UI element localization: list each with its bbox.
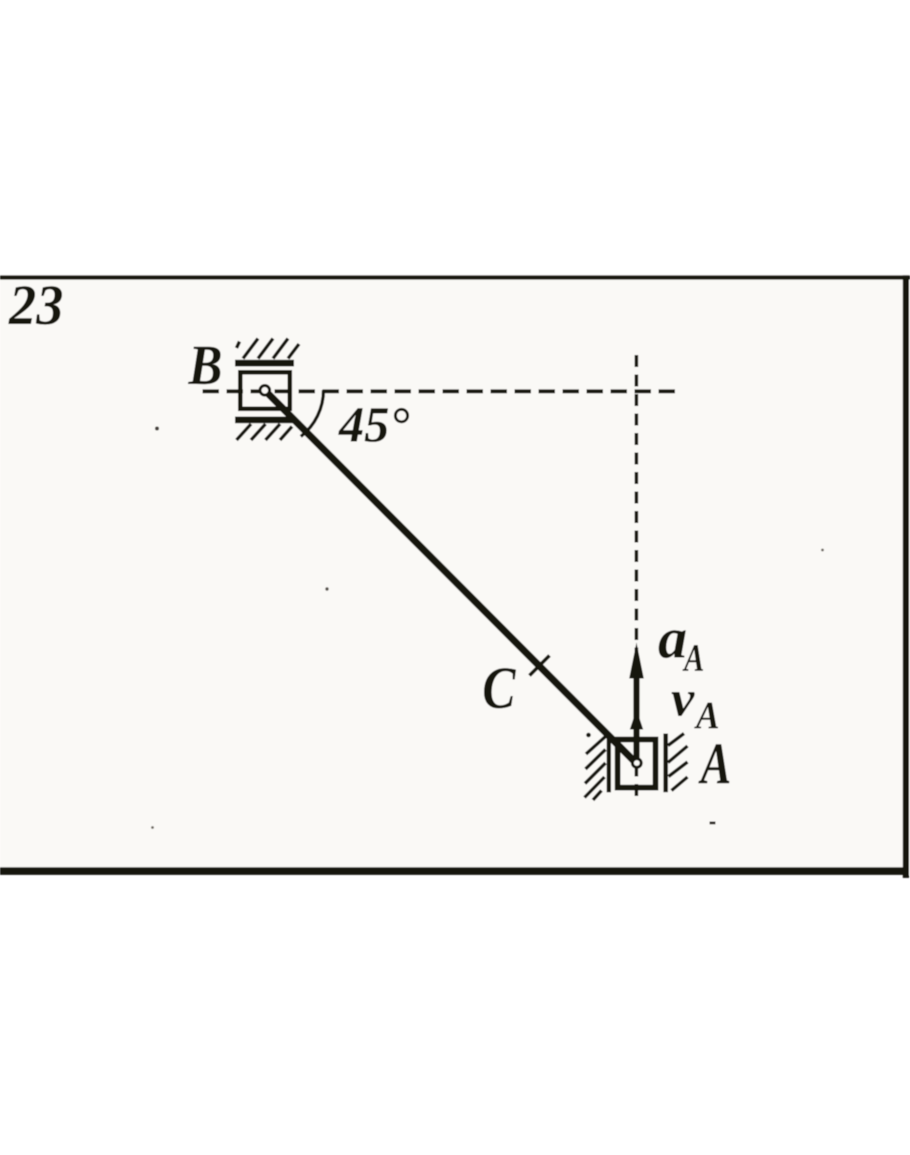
acceleration arrow aA head	[629, 643, 644, 679]
hatching below lower rail of B	[237, 424, 293, 440]
frame top border	[0, 275, 910, 279]
right guide bar of slider A	[663, 734, 668, 793]
stray speck 5	[821, 549, 824, 552]
speck near left hatching of A	[586, 733, 591, 738]
frame right border	[903, 275, 909, 878]
frame bottom border	[0, 867, 909, 875]
problem number 23	[8, 286, 62, 324]
midpoint tick at C	[530, 656, 550, 676]
label aA	[659, 630, 686, 658]
label 45deg	[338, 408, 409, 442]
vertical dashed construction line through A	[635, 355, 639, 799]
hatching right of slider A	[668, 734, 688, 791]
hatching left of slider A	[585, 737, 606, 801]
slider block A	[618, 740, 656, 788]
slider B lower guide rail	[235, 417, 293, 424]
slider block B	[240, 372, 289, 409]
angle arc 45 deg at B	[301, 390, 324, 437]
hatching above upper rail of B	[237, 339, 300, 359]
stray speck 2	[325, 587, 328, 590]
slider B upper guide rail	[235, 360, 294, 367]
stray speck 4	[151, 826, 154, 829]
velocity arrow vA head	[630, 710, 643, 730]
label C	[484, 668, 516, 708]
paper background inside frame	[0, 275, 910, 875]
acceleration arrow aA shaft	[633, 676, 639, 762]
pin joint at B	[260, 386, 270, 396]
label B	[188, 347, 221, 385]
stray speck 1	[155, 427, 159, 431]
rod AB	[265, 390, 637, 764]
stray speck 3	[710, 822, 716, 825]
horizontal dashed construction line through B	[203, 389, 681, 393]
pin joint at A	[632, 759, 641, 768]
label A	[698, 744, 729, 783]
left guide bar of slider A	[607, 733, 611, 792]
label vA	[672, 692, 695, 716]
